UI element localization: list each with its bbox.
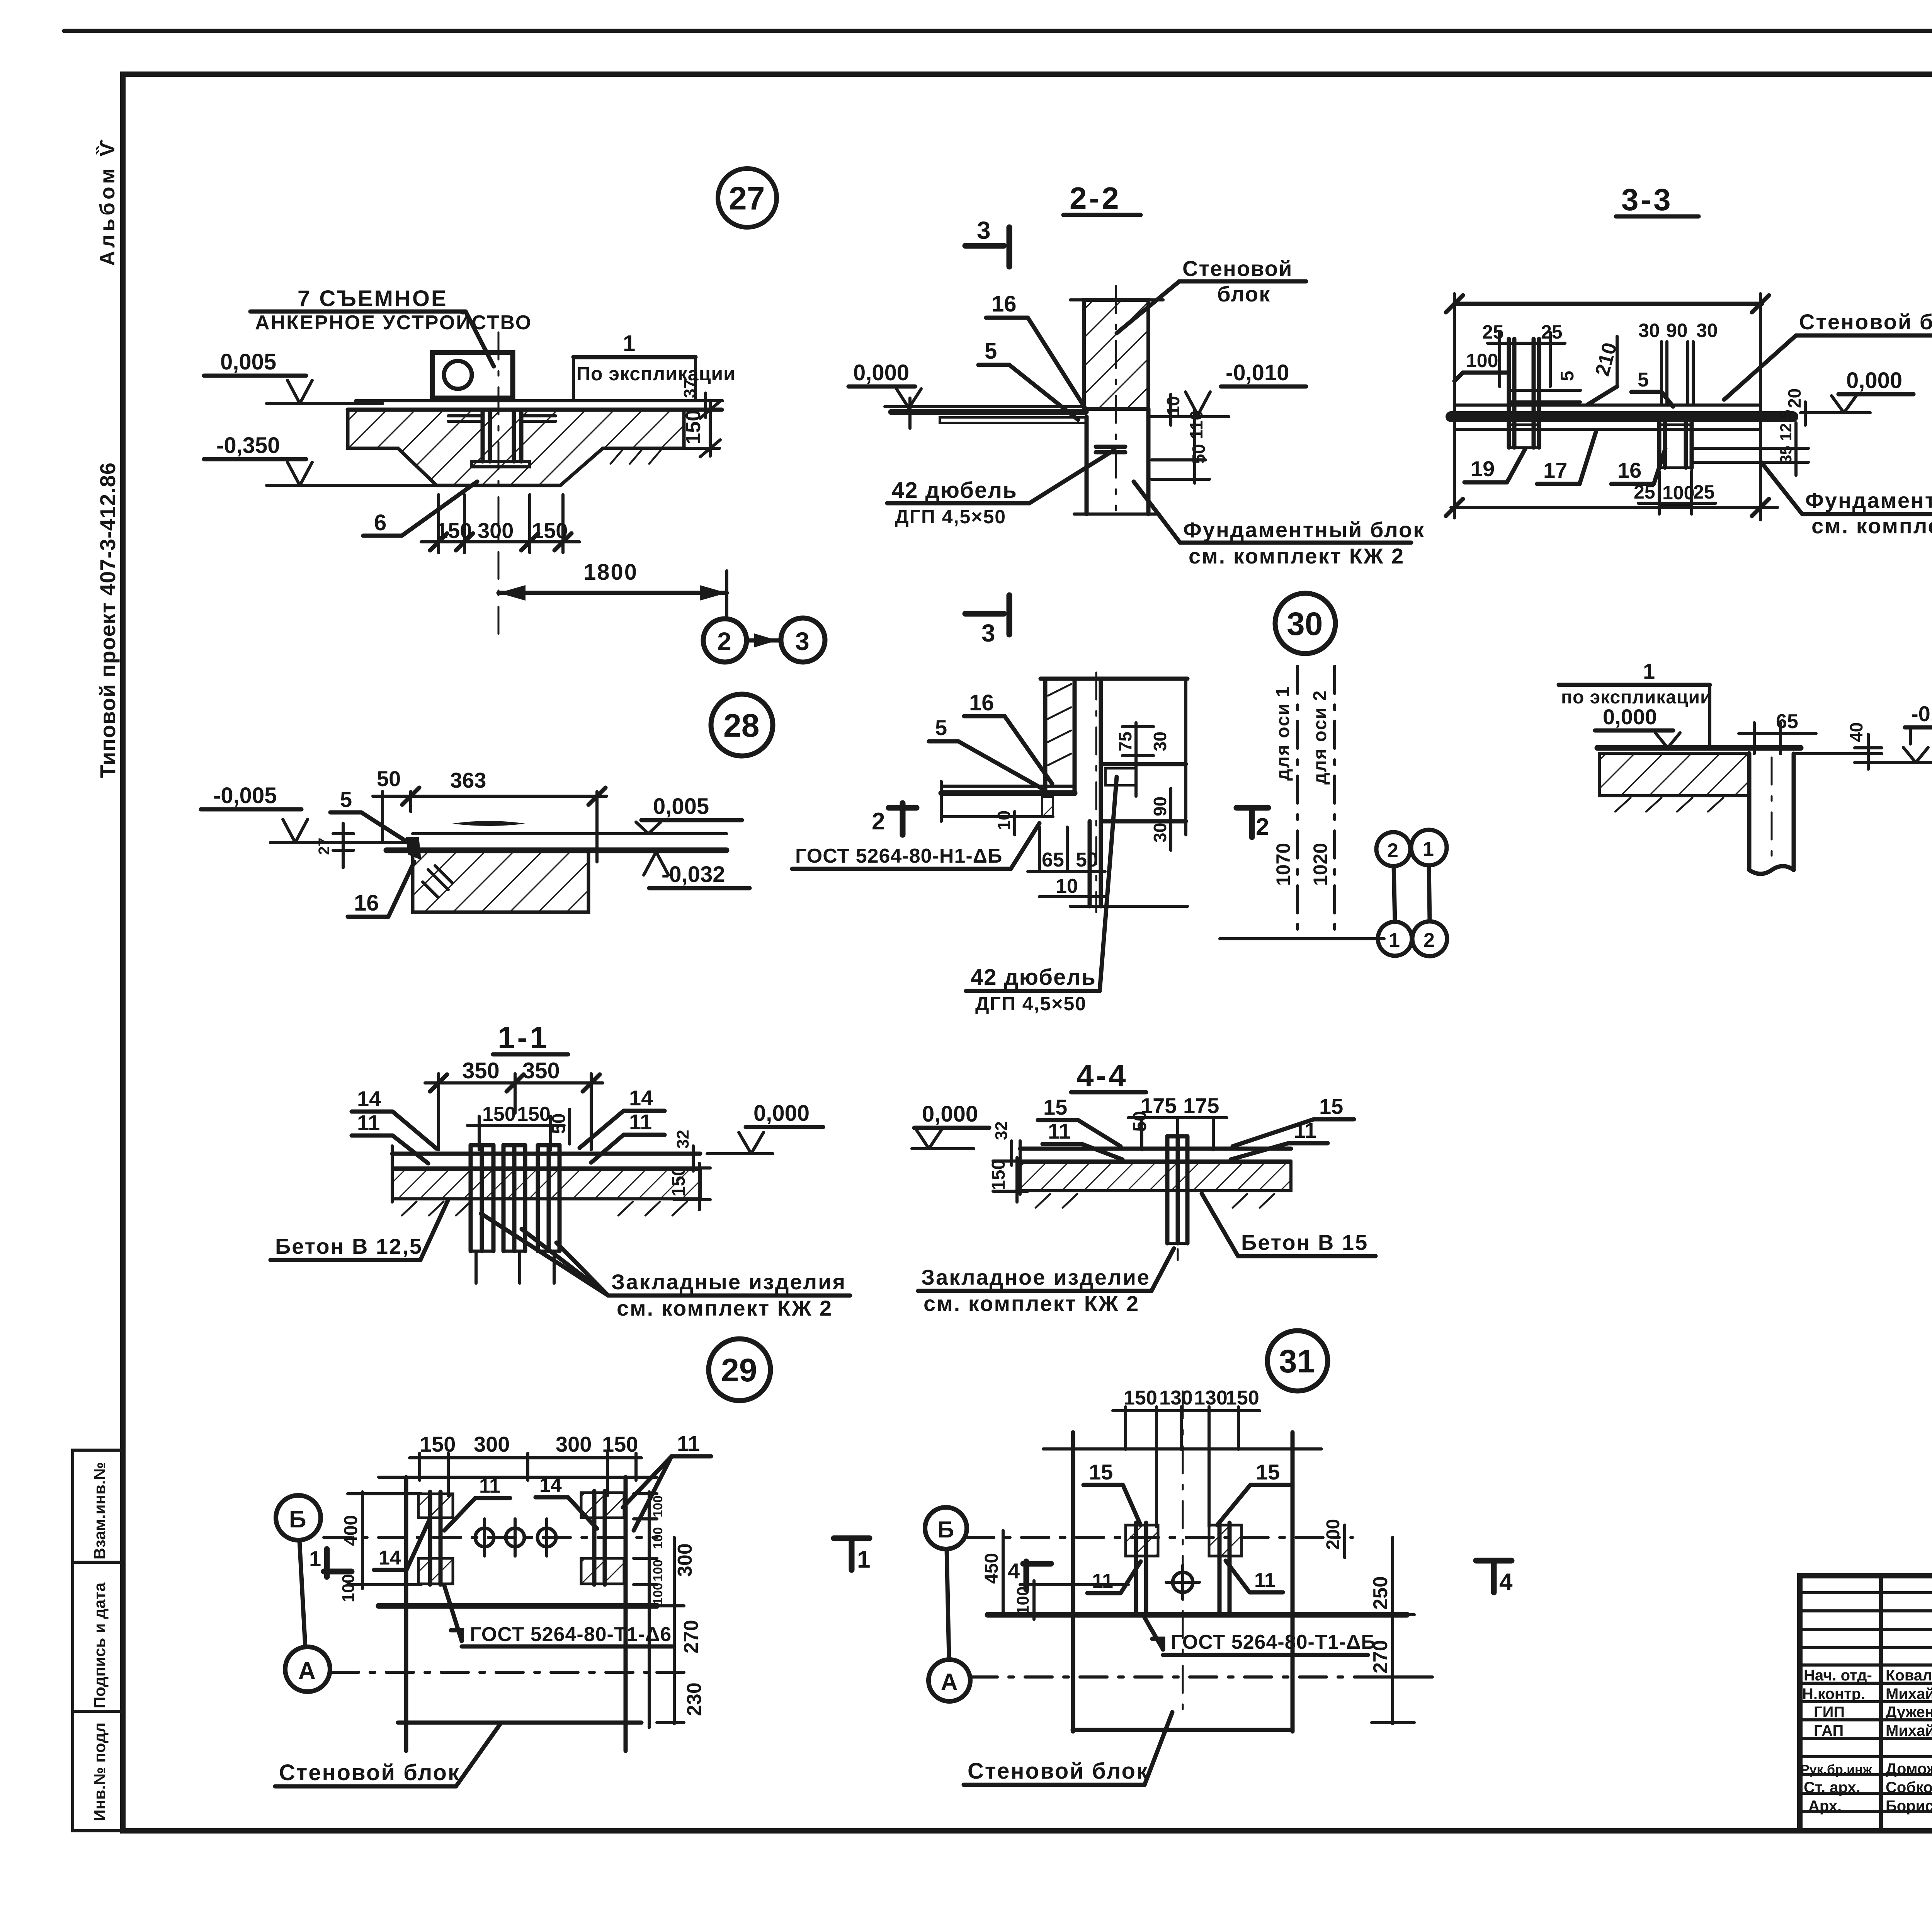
svg-text:150: 150 bbox=[532, 518, 568, 543]
svg-text:4: 4 bbox=[1008, 1559, 1020, 1583]
svg-text:Типовой проект 407-3-412.86: Типовой проект 407-3-412.86 bbox=[95, 462, 120, 778]
svg-text:100: 100 bbox=[1014, 1587, 1032, 1615]
axis circle A (29) bbox=[285, 1647, 330, 1692]
left dims 400 100 (rotated, 29) bbox=[339, 1492, 421, 1602]
svg-text:5: 5 bbox=[935, 715, 947, 740]
svg-text:3: 3 bbox=[981, 619, 995, 647]
dim 10 (rotated) bbox=[994, 810, 1015, 835]
section title 2-2 bbox=[1063, 181, 1141, 215]
weld GOST note (31) bbox=[1145, 1617, 1376, 1655]
svg-text:1020: 1020 bbox=[1310, 843, 1331, 886]
label 5 with leader bbox=[330, 787, 415, 847]
svg-text:2-2: 2-2 bbox=[1070, 181, 1121, 215]
svg-text:0,000: 0,000 bbox=[1603, 705, 1657, 729]
svg-text:0,000: 0,000 bbox=[922, 1102, 978, 1127]
anchor centerline bbox=[498, 332, 500, 634]
elevation mark -0,350 bbox=[204, 433, 439, 485]
svg-text:Б: Б bbox=[937, 1517, 954, 1542]
svg-text:37: 37 bbox=[680, 379, 699, 398]
section title 1-1 bbox=[493, 1020, 568, 1055]
svg-text:16: 16 bbox=[969, 690, 994, 715]
svg-text:Ст. арх.: Ст. арх. bbox=[1804, 1779, 1861, 1796]
svg-text:5: 5 bbox=[340, 787, 352, 812]
svg-text:1: 1 bbox=[1423, 838, 1434, 860]
axis line B (31) bbox=[967, 1536, 1352, 1539]
label embedded items (1-1) bbox=[481, 1214, 850, 1320]
elevation 0,000 (1-1) bbox=[707, 1101, 823, 1154]
elevation -0,040 (33) bbox=[1878, 701, 1932, 763]
svg-text:-0,010: -0,010 bbox=[1226, 360, 1289, 385]
central embedded plate (4-4) bbox=[1167, 1136, 1187, 1260]
dims 30 90 30 bbox=[1638, 320, 1718, 405]
svg-text:Нач. отд-: Нач. отд- bbox=[1804, 1667, 1872, 1684]
svg-text:3: 3 bbox=[795, 627, 810, 655]
svg-text:100: 100 bbox=[651, 1583, 665, 1605]
svg-text:Альбом Ѷ: Альбом Ѷ bbox=[96, 136, 119, 266]
svg-text:25: 25 bbox=[1693, 481, 1715, 503]
svg-text:30: 30 bbox=[1696, 320, 1718, 341]
slab edge (detail 28) bbox=[386, 821, 726, 912]
svg-text:90: 90 bbox=[1666, 320, 1688, 341]
svg-text:Взам.инв.№: Взам.инв.№ bbox=[90, 1462, 109, 1559]
label: removable anchor device bbox=[250, 286, 532, 366]
svg-text:363: 363 bbox=[450, 768, 486, 792]
elevation 0,000 (33) bbox=[1595, 705, 1680, 748]
detail bubble 31 bbox=[1267, 1331, 1328, 1391]
section title 3-3 bbox=[1616, 182, 1699, 217]
dim 5 (rotated, left) bbox=[1557, 371, 1578, 381]
svg-text:15: 15 bbox=[1319, 1094, 1343, 1119]
svg-text:Стеновой блок: Стеновой блок bbox=[1799, 310, 1932, 334]
dims 90 30 (rotated) bbox=[1150, 788, 1171, 850]
svg-text:Ковалев: Ковалев bbox=[1886, 1667, 1932, 1684]
label 1 po eksplikacii (33) bbox=[1559, 659, 1712, 748]
svg-text:ДГП 4,5×50: ДГП 4,5×50 bbox=[975, 993, 1087, 1015]
dim 65 (33) bbox=[1739, 710, 1816, 754]
svg-text:2: 2 bbox=[872, 808, 885, 835]
section cut mark 3 (bottom) bbox=[965, 595, 1009, 647]
dims 65 50 10 bbox=[1028, 827, 1105, 897]
svg-text:Арх.: Арх. bbox=[1808, 1798, 1842, 1815]
svg-text:Б: Б bbox=[289, 1506, 306, 1533]
elevation 0,000 left bbox=[849, 360, 921, 408]
svg-text:ДГП 4,5×50: ДГП 4,5×50 bbox=[895, 506, 1006, 528]
three embedded channels (1-1) bbox=[471, 1145, 560, 1283]
svg-text:По экспликации: По экспликации bbox=[577, 363, 736, 385]
svg-text:10: 10 bbox=[1163, 396, 1183, 416]
svg-text:см. комплект КЖ 2: см. комплект КЖ 2 bbox=[1189, 544, 1405, 568]
svg-text:1: 1 bbox=[309, 1546, 321, 1571]
svg-text:1-1: 1-1 bbox=[498, 1020, 549, 1055]
labels 14 11 (left) bbox=[352, 1086, 437, 1163]
labels 15 11 (left, 4-4) bbox=[1038, 1095, 1122, 1159]
elevation mark 0,005 right bbox=[636, 794, 742, 834]
svg-text:27: 27 bbox=[316, 838, 333, 855]
label 14 left + section mark 1 (29) bbox=[309, 1521, 429, 1577]
column below (33) bbox=[1749, 753, 1794, 874]
dowel (dashed) in foundation bbox=[1096, 447, 1125, 452]
svg-text:150: 150 bbox=[1226, 1387, 1259, 1409]
svg-text:50: 50 bbox=[1076, 849, 1098, 871]
svg-text:5: 5 bbox=[1638, 369, 1649, 391]
central centerline (31) bbox=[1182, 1391, 1184, 1712]
floor finish lines bbox=[348, 401, 723, 410]
svg-text:Доможирова: Доможирова bbox=[1886, 1760, 1932, 1777]
svg-text:15: 15 bbox=[1089, 1460, 1113, 1484]
svg-text:14: 14 bbox=[357, 1086, 381, 1111]
svg-text:15: 15 bbox=[1043, 1095, 1067, 1119]
svg-text:-0,350: -0,350 bbox=[216, 433, 280, 458]
svg-text:100: 100 bbox=[339, 1574, 358, 1602]
detail bubble 29 bbox=[709, 1339, 770, 1401]
axis line B (29) bbox=[324, 1536, 657, 1539]
svg-text:90: 90 bbox=[1150, 797, 1170, 816]
wall block (hatched) bbox=[1070, 286, 1163, 510]
svg-text:3-3: 3-3 bbox=[1621, 182, 1673, 217]
label 42 dowel bbox=[887, 450, 1114, 528]
labels 15 11 (right, 4-4) bbox=[1231, 1094, 1354, 1159]
svg-text:65: 65 bbox=[1042, 849, 1064, 871]
svg-text:16: 16 bbox=[992, 291, 1017, 317]
svg-text:6: 6 bbox=[374, 510, 386, 535]
svg-text:200: 200 bbox=[1323, 1519, 1344, 1550]
svg-text:5: 5 bbox=[1557, 371, 1578, 381]
svg-text:Закладные изделия: Закладные изделия bbox=[611, 1270, 846, 1294]
svg-text:11: 11 bbox=[1048, 1119, 1071, 1143]
svg-text:АНКЕРНОЕ УСТРОЙСТВО: АНКЕРНОЕ УСТРОЙСТВО bbox=[255, 311, 532, 334]
dim row 150 300 150 bbox=[421, 495, 580, 553]
dim 40 (rotated, 33) bbox=[1846, 722, 1882, 769]
svg-text:30: 30 bbox=[1638, 320, 1660, 341]
label foundation block (3-3) bbox=[1761, 462, 1932, 538]
svg-text:27: 27 bbox=[729, 180, 765, 216]
dim 100 bbox=[1454, 350, 1509, 381]
svg-text:Подпись и дата: Подпись и дата bbox=[90, 1582, 109, 1708]
svg-text:31: 31 bbox=[1279, 1343, 1315, 1379]
sheet outer top edge line bbox=[64, 29, 1932, 33]
anchor bolt center (31) bbox=[1166, 1565, 1199, 1599]
svg-text:см. комплект КЖ 2: см. комплект КЖ 2 bbox=[617, 1296, 833, 1320]
svg-text:42 дюбель: 42 дюбель bbox=[971, 965, 1096, 990]
svg-text:-0,005: -0,005 bbox=[213, 783, 277, 808]
T2 mark bbox=[1236, 808, 1269, 840]
dims 150 150 bbox=[468, 1103, 564, 1150]
elevation mark 0,005 bbox=[204, 349, 383, 403]
left dims 450 100 + section 4 (31) bbox=[981, 1531, 1128, 1619]
left floor line (detail 28) bbox=[270, 841, 408, 844]
svg-text:5: 5 bbox=[985, 339, 997, 364]
svg-text:35 12,5: 35 12,5 bbox=[1777, 410, 1795, 464]
svg-text:1800: 1800 bbox=[583, 560, 638, 585]
svg-text:270: 270 bbox=[680, 1620, 702, 1653]
floor slab (4-4) bbox=[1020, 1141, 1291, 1208]
right plate (31) bbox=[1209, 1523, 1242, 1615]
ground hatch ticks under slab bbox=[611, 450, 661, 464]
arrow 2 to 3 bbox=[747, 633, 780, 647]
label wall block bbox=[1117, 256, 1306, 333]
section cut mark 2 (left) bbox=[872, 803, 917, 835]
svg-text:ГОСТ 5264-80-Н1-ΔБ: ГОСТ 5264-80-Н1-ΔБ bbox=[795, 845, 1002, 867]
dims 10 110 50 right of wall bbox=[1151, 394, 1209, 483]
svg-text:150: 150 bbox=[420, 1432, 456, 1456]
svg-text:2: 2 bbox=[717, 627, 731, 655]
connectors between node pairs bbox=[1394, 865, 1430, 922]
svg-text:25: 25 bbox=[1634, 481, 1655, 503]
plan outline (31) bbox=[988, 1432, 1407, 1731]
svg-text:40: 40 bbox=[1846, 722, 1866, 742]
node marker 3 bbox=[781, 618, 825, 662]
svg-text:300: 300 bbox=[556, 1432, 592, 1456]
dims 35 12,5 (rotated) bbox=[1692, 410, 1808, 475]
svg-text:4-4: 4-4 bbox=[1077, 1058, 1128, 1093]
label wall block (3-3) bbox=[1724, 310, 1932, 400]
svg-text:Дуженкова: Дуженкова bbox=[1886, 1704, 1932, 1721]
weld GOST note (29) bbox=[444, 1586, 672, 1646]
svg-text:блок: блок bbox=[1217, 282, 1270, 306]
T1 mark bbox=[834, 1538, 870, 1573]
svg-text:см. комплект КЖ 2: см. комплект КЖ 2 bbox=[1811, 514, 1932, 538]
embedded I-beam bbox=[448, 410, 556, 467]
dim 20 (rotated, right of band) bbox=[1784, 388, 1805, 425]
svg-text:50: 50 bbox=[1130, 1111, 1150, 1132]
label 5 with leader bbox=[929, 715, 1043, 789]
right dims (29): 100x4, 300, 270, 230 bbox=[634, 1492, 706, 1728]
elevation mark -0,005 bbox=[201, 783, 413, 843]
axis node pair top (2)(1) bbox=[1376, 830, 1447, 866]
labels 11 11 (31) bbox=[1087, 1561, 1283, 1593]
svg-text:150: 150 bbox=[482, 1103, 516, 1125]
svg-text:150: 150 bbox=[436, 518, 472, 543]
svg-text:19: 19 bbox=[1471, 456, 1495, 481]
node marker 2 bbox=[703, 619, 747, 662]
svg-text:300: 300 bbox=[474, 1432, 510, 1456]
svg-text:Стеновой: Стеновой bbox=[1182, 256, 1293, 281]
svg-text:16: 16 bbox=[354, 890, 379, 916]
svg-text:Инв.№ подл: Инв.№ подл bbox=[90, 1723, 109, 1821]
svg-text:350: 350 bbox=[522, 1058, 560, 1083]
elevation 0,000 (3-3) bbox=[1801, 368, 1913, 413]
floor right of wall bbox=[1148, 415, 1229, 418]
svg-text:для оси 1: для оси 1 bbox=[1273, 686, 1293, 781]
axis line A (31) bbox=[970, 1675, 1432, 1679]
svg-text:Фундаментный блок: Фундаментный блок bbox=[1805, 488, 1932, 512]
svg-text:14: 14 bbox=[379, 1547, 401, 1569]
svg-text:см. комплект КЖ 2: см. комплект КЖ 2 bbox=[923, 1291, 1139, 1316]
svg-text:3: 3 bbox=[977, 216, 991, 244]
svg-text:-0,040: -0,040 bbox=[1911, 701, 1932, 726]
svg-text:450: 450 bbox=[981, 1553, 1002, 1584]
svg-text:20: 20 bbox=[1784, 388, 1804, 408]
label wall block (29) bbox=[275, 1724, 500, 1786]
dim 210 (rotated) bbox=[1588, 336, 1621, 404]
svg-text:ГОСТ 5264-80-Т1-ΔБ: ГОСТ 5264-80-Т1-ΔБ bbox=[1171, 1631, 1376, 1653]
section cut mark 3 (top) bbox=[965, 216, 1009, 267]
typical project label (vertical, left margin middle) bbox=[95, 462, 120, 778]
svg-text:0,000: 0,000 bbox=[853, 360, 909, 385]
axis circle B (29) bbox=[276, 1495, 321, 1646]
svg-text:1070: 1070 bbox=[1272, 843, 1294, 886]
svg-text:17: 17 bbox=[1543, 458, 1567, 482]
svg-text:А: А bbox=[298, 1658, 316, 1684]
svg-text:130: 130 bbox=[1159, 1387, 1193, 1409]
svg-text:230: 230 bbox=[683, 1682, 706, 1716]
svg-text:Бетон В 15: Бетон В 15 bbox=[1241, 1230, 1368, 1255]
detail bubble 27 bbox=[718, 169, 777, 227]
dim 1800 bbox=[498, 560, 727, 618]
svg-text:10: 10 bbox=[1056, 875, 1078, 897]
svg-text:Закладное изделие: Закладное изделие bbox=[921, 1265, 1150, 1289]
label 6 with leader bbox=[363, 482, 477, 536]
axis lines for axes 1/2 bbox=[1220, 666, 1384, 939]
svg-text:75: 75 bbox=[1115, 732, 1135, 751]
album label (vertical, left margin top) bbox=[96, 136, 119, 266]
label wall block (31) bbox=[964, 1712, 1172, 1785]
svg-text:Стеновой блок: Стеновой блок bbox=[968, 1759, 1149, 1784]
svg-text:14: 14 bbox=[629, 1086, 653, 1110]
dims 25 100 25 (bottom) bbox=[1634, 472, 1716, 514]
label concrete B12.5 bbox=[270, 1200, 448, 1260]
svg-text:Бетон В 12,5: Бетон В 12,5 bbox=[275, 1234, 423, 1258]
svg-text:Стеновой блок: Стеновой блок bbox=[279, 1760, 460, 1785]
anchor device box bbox=[432, 352, 513, 398]
wall block plan outline bbox=[1446, 294, 1777, 520]
dim 50 and 363 bbox=[373, 766, 607, 862]
svg-text:50: 50 bbox=[377, 766, 401, 791]
svg-text:30: 30 bbox=[1287, 606, 1323, 642]
dims 32 150 (rotated right) bbox=[668, 1130, 710, 1210]
svg-text:16: 16 bbox=[1617, 458, 1641, 482]
svg-text:Рук.бр.инж: Рук.бр.инж bbox=[1801, 1762, 1872, 1777]
label 5 with leader bbox=[978, 339, 1078, 420]
dims 350 350 bbox=[425, 1058, 603, 1150]
svg-text:15: 15 bbox=[1256, 1460, 1280, 1484]
svg-text:14: 14 bbox=[539, 1474, 562, 1496]
svg-text:250: 250 bbox=[1369, 1576, 1392, 1610]
plan outline (29) bbox=[379, 1477, 657, 1751]
dims 150 130 130 150 (31 top) bbox=[1113, 1387, 1260, 1527]
dim 50 (rotated) bbox=[549, 1109, 570, 1144]
T4 mark bbox=[1476, 1561, 1513, 1595]
svg-text:100: 100 bbox=[651, 1527, 665, 1549]
svg-text:100: 100 bbox=[1466, 350, 1498, 371]
svg-text:30: 30 bbox=[1150, 823, 1170, 843]
svg-text:50: 50 bbox=[549, 1113, 569, 1134]
detail bubble 28 bbox=[711, 694, 773, 756]
dims 25 25 over plates bbox=[1482, 321, 1565, 386]
svg-text:2: 2 bbox=[1256, 814, 1269, 840]
svg-text:2: 2 bbox=[1423, 929, 1435, 952]
svg-text:100: 100 bbox=[651, 1559, 665, 1582]
floor slab (1-1) bbox=[392, 1146, 700, 1216]
svg-text:-0,032: -0,032 bbox=[662, 862, 725, 887]
svg-text:1: 1 bbox=[623, 331, 635, 356]
svg-text:11: 11 bbox=[1294, 1118, 1316, 1142]
svg-text:100: 100 bbox=[1662, 482, 1694, 504]
ledge right bbox=[1070, 764, 1187, 906]
axis circle A (31) bbox=[929, 1660, 970, 1701]
elevation mark -0,032 right bbox=[644, 852, 750, 888]
svg-text:150: 150 bbox=[988, 1159, 1009, 1190]
svg-text:Н.контр.: Н.контр. bbox=[1802, 1685, 1865, 1702]
dowel below band (right) bbox=[1659, 423, 1692, 506]
svg-text:11: 11 bbox=[677, 1431, 700, 1456]
labels 19 17 16 bbox=[1464, 448, 1526, 482]
labels 14 11 (right) bbox=[580, 1086, 665, 1163]
axis circle B (31) bbox=[925, 1507, 967, 1658]
signature table texts bbox=[1801, 1667, 1932, 1815]
left embedded plate assembly bbox=[1509, 339, 1580, 448]
label 42 dowel (detail 30) bbox=[966, 777, 1117, 1015]
svg-text:0,000: 0,000 bbox=[1846, 368, 1902, 393]
small left dim 27 bbox=[316, 823, 354, 868]
svg-text:ГОСТ 5264-80-Т1-Δ6: ГОСТ 5264-80-Т1-Δ6 bbox=[470, 1623, 672, 1646]
svg-text:ГАП: ГАП bbox=[1814, 1722, 1844, 1739]
left margin stamp boxes (vertical) bbox=[73, 1450, 123, 1831]
svg-text:0,005: 0,005 bbox=[653, 794, 709, 819]
svg-text:350: 350 bbox=[462, 1058, 500, 1083]
right plate pair (29) bbox=[581, 1491, 624, 1585]
signature table grid bbox=[1800, 1576, 1932, 1831]
floor band through plan bbox=[1451, 405, 1793, 429]
label 11 (29 top) with leaders bbox=[623, 1431, 711, 1531]
svg-text:150: 150 bbox=[517, 1103, 551, 1125]
svg-text:11: 11 bbox=[357, 1110, 380, 1135]
svg-text:100: 100 bbox=[651, 1495, 665, 1517]
svg-text:Собко: Собко bbox=[1886, 1779, 1932, 1796]
labels 11 14 inside plan (29) bbox=[444, 1474, 597, 1531]
svg-text:2: 2 bbox=[1387, 839, 1398, 862]
label embedded item (4-4) bbox=[918, 1248, 1174, 1316]
svg-text:175: 175 bbox=[1183, 1093, 1219, 1118]
label foundation block bbox=[1134, 482, 1425, 568]
svg-text:10: 10 bbox=[994, 810, 1014, 830]
floor slab (33) bbox=[1597, 748, 1882, 812]
axis line A (29) bbox=[332, 1671, 657, 1674]
svg-text:11: 11 bbox=[479, 1475, 500, 1497]
svg-text:28: 28 bbox=[723, 707, 759, 744]
label 16 with leader bbox=[348, 862, 414, 917]
label 5 with leader (right group) bbox=[1631, 369, 1673, 407]
label 16 with leader bbox=[964, 690, 1052, 784]
svg-text:11: 11 bbox=[629, 1110, 652, 1134]
svg-text:Михайлов: Михайлов bbox=[1886, 1722, 1932, 1739]
label concrete B15 bbox=[1202, 1193, 1376, 1256]
dim 150 (right, slab thickness) bbox=[682, 401, 720, 457]
title block frame bbox=[1800, 1576, 1932, 1831]
foundation block below bbox=[1074, 409, 1159, 514]
right dims 200 250 270 (31) bbox=[1323, 1519, 1414, 1724]
svg-text:150: 150 bbox=[1124, 1387, 1157, 1409]
svg-text:Борисова: Борисова bbox=[1886, 1798, 1932, 1815]
svg-text:400: 400 bbox=[341, 1515, 361, 1546]
svg-text:11: 11 bbox=[1254, 1569, 1276, 1592]
axis node pair bottom (1)(2) bbox=[1378, 921, 1447, 956]
floor strip (plan band) bbox=[941, 781, 1075, 821]
svg-text:300: 300 bbox=[478, 518, 514, 543]
dims 32 150 (rotated left, 4-4) bbox=[988, 1121, 1028, 1202]
svg-text:300: 300 bbox=[674, 1543, 696, 1577]
anchor bolts (29) bbox=[475, 1519, 556, 1556]
label 1 po eksplikacii bbox=[573, 331, 736, 401]
svg-text:1: 1 bbox=[857, 1546, 870, 1573]
detail bubble 30 bbox=[1275, 593, 1335, 654]
svg-text:Михайлова: Михайлова bbox=[1886, 1685, 1932, 1702]
svg-text:30: 30 bbox=[1150, 732, 1170, 751]
svg-text:130: 130 bbox=[1194, 1387, 1228, 1409]
svg-text:А: А bbox=[941, 1669, 957, 1695]
svg-text:11: 11 bbox=[1092, 1570, 1113, 1592]
floor slab left of wall bbox=[885, 398, 1087, 428]
